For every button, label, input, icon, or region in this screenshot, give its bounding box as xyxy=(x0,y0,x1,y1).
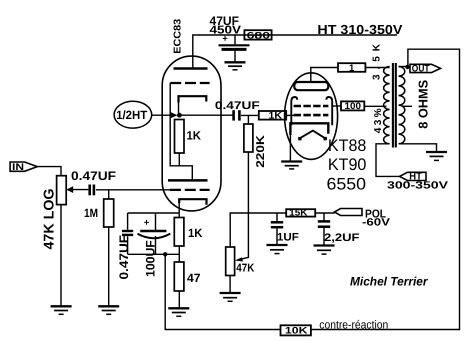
svg-text:1K: 1K xyxy=(187,128,202,142)
triode V1b plate xyxy=(168,179,208,182)
connector IN flag xyxy=(10,162,37,171)
svg-text:+: + xyxy=(144,218,150,229)
capacitor 47UF 450V leads xyxy=(234,35,236,61)
label ECC83 xyxy=(172,18,183,53)
label 43% xyxy=(373,108,384,133)
svg-text:47: 47 xyxy=(187,271,201,285)
wire cap to grid xyxy=(96,189,170,191)
potentiometer 47K bias xyxy=(226,247,235,276)
svg-text:220K: 220K xyxy=(255,134,267,168)
wire 1K bottom xyxy=(178,153,180,166)
wire 100 to tap xyxy=(364,105,386,107)
wire cathode bottom rail xyxy=(128,253,180,255)
wire 1M to ground xyxy=(108,227,110,306)
connector POL flag xyxy=(335,209,363,216)
wire cathode to ground xyxy=(289,133,291,161)
tube ECC83 envelope xyxy=(162,56,221,211)
KT88 plate xyxy=(294,82,328,90)
label 47UF 450V xyxy=(210,14,242,37)
triode V1a plate xyxy=(174,67,208,70)
potentiometer 47K LOG xyxy=(57,176,67,205)
label HT 310-350V xyxy=(317,22,402,37)
wire cathode top rail xyxy=(128,212,180,214)
label KT88 KT90 6550 xyxy=(327,136,367,194)
wire feedback right side xyxy=(311,49,460,329)
wire 1K to KT88 grid xyxy=(286,114,293,116)
node out junction xyxy=(405,65,409,69)
connector OUT flag xyxy=(410,64,441,72)
node feedback junction xyxy=(163,252,167,256)
resistor 15K xyxy=(286,209,315,216)
capacitor 0.47UF cathode xyxy=(127,213,129,254)
resistor 680 xyxy=(244,30,271,39)
wire pot wiper xyxy=(72,189,89,191)
ground 1M xyxy=(98,305,119,307)
svg-text:0.47UF: 0.47UF xyxy=(117,234,131,279)
svg-text:8 OHMS: 8 OHMS xyxy=(415,79,430,128)
svg-text:47K LOG: 47K LOG xyxy=(41,189,57,250)
svg-text:Michel Terrier: Michel Terrier xyxy=(350,274,429,288)
wire primary bottom to HT flag xyxy=(376,144,400,177)
transformer secondary coil xyxy=(399,67,405,144)
wire plate to resistor 1 xyxy=(311,68,338,83)
resistor 220K xyxy=(244,124,253,152)
svg-text:10K: 10K xyxy=(285,326,308,337)
svg-text:3.5K: 3.5K xyxy=(372,43,383,80)
wire 1 to primary xyxy=(365,67,389,69)
svg-text:300-350V: 300-350V xyxy=(387,181,448,192)
capacitor 0.47UF coupling xyxy=(232,110,235,120)
svg-text:0.47UF: 0.47UF xyxy=(215,100,260,112)
svg-text:1K: 1K xyxy=(269,110,283,121)
wire 15K to POL xyxy=(315,212,334,214)
wire V1b cathode lead xyxy=(178,201,180,218)
ground 1UF xyxy=(267,244,288,246)
svg-text:680: 680 xyxy=(247,30,271,41)
svg-text:OUT: OUT xyxy=(412,64,430,75)
svg-text:47K: 47K xyxy=(236,262,255,274)
resistor 1 xyxy=(338,63,365,72)
KT88 beam plate right xyxy=(326,97,332,125)
connector HT flag xyxy=(400,172,427,180)
connector 1/2HT xyxy=(114,101,152,128)
svg-text:6550: 6550 xyxy=(327,174,367,193)
resistor 100 xyxy=(341,101,364,110)
capacitor 1UF xyxy=(276,213,278,244)
KT88 screen grid g2 xyxy=(294,105,329,108)
label 0.47UF input xyxy=(71,169,116,183)
ground KT88 xyxy=(281,160,302,162)
label 8 OHMS xyxy=(415,79,430,128)
svg-text:-60V: -60V xyxy=(362,216,390,228)
svg-text:1UF: 1UF xyxy=(277,231,299,243)
wire g2 to 100 xyxy=(332,105,341,107)
KT88 control grid g1 xyxy=(294,114,329,117)
ground secondary xyxy=(426,151,447,153)
label 0.47UF cathode xyxy=(117,234,131,279)
ground 47 xyxy=(168,307,189,309)
wire 1M tap xyxy=(108,190,110,199)
svg-text:43%: 43% xyxy=(373,108,384,133)
transformer primary coil xyxy=(384,67,390,144)
resistor 1K SRPP xyxy=(175,120,185,154)
capacitor 0.47UF input plates xyxy=(88,185,91,196)
svg-text:IN: IN xyxy=(12,162,24,173)
capacitor 100UF xyxy=(155,213,157,254)
wire feedback from junction xyxy=(165,254,280,329)
triode V1a cathode xyxy=(179,96,207,102)
svg-text:HT 310-350V: HT 310-350V xyxy=(317,22,402,37)
resistor 47 xyxy=(174,262,184,291)
ground pot xyxy=(51,305,72,307)
wire SRPP output xyxy=(179,114,233,116)
ground 2.2UF xyxy=(314,244,335,246)
svg-text:15K: 15K xyxy=(289,208,308,218)
label + of 100UF xyxy=(144,218,150,229)
resistor 1M xyxy=(104,199,114,227)
svg-text:KT88: KT88 xyxy=(328,136,367,155)
svg-text:100UF: 100UF xyxy=(144,240,158,277)
wire 1/2HT arrow xyxy=(152,114,171,116)
wire HT rail top xyxy=(193,35,397,68)
capacitor 2.2UF xyxy=(323,213,325,245)
capacitor 47UF 450V plates xyxy=(219,44,250,46)
svg-text:1M: 1M xyxy=(84,206,98,220)
triode V1b grid xyxy=(170,189,210,191)
svg-text:1K: 1K xyxy=(188,226,203,240)
label contre-reaction xyxy=(319,318,388,331)
resistor 1K cathode xyxy=(174,218,184,247)
triode V1a grid xyxy=(170,82,209,84)
svg-text:ECC83: ECC83 xyxy=(172,18,183,53)
triode V1b cathode xyxy=(179,199,206,205)
svg-text:450V: 450V xyxy=(210,25,242,37)
wire 220K to wiper xyxy=(239,152,249,260)
svg-text:KT90: KT90 xyxy=(328,155,367,174)
svg-text:0.47UF: 0.47UF xyxy=(71,169,116,183)
wire V1a cathode lead xyxy=(178,102,180,116)
wire V1a grid to V1b plate xyxy=(170,83,192,179)
wire 220K tap xyxy=(247,115,249,124)
wire IN to pot xyxy=(37,167,61,176)
ground under 47UF xyxy=(225,61,246,63)
wire secondary top to out xyxy=(399,66,411,68)
ground 47K pot xyxy=(220,292,241,294)
svg-text:2,2UF: 2,2UF xyxy=(324,232,360,244)
wire pot bottom to ground xyxy=(60,205,62,306)
resistor 10K xyxy=(281,325,311,335)
wire secondary tap stub xyxy=(402,105,412,107)
label 300-350V xyxy=(387,181,448,192)
wire cap to 1K xyxy=(241,114,259,116)
transformer core xyxy=(392,63,394,148)
KT88 beam plate left xyxy=(291,97,297,125)
node cathode junction xyxy=(177,113,182,118)
label 3.5K xyxy=(372,43,383,80)
svg-text:1: 1 xyxy=(349,63,355,74)
wire pot bottom to ground xyxy=(229,276,231,293)
svg-text:100: 100 xyxy=(345,100,362,111)
wire 47 to ground xyxy=(178,291,180,308)
KT88 cathode xyxy=(290,123,328,135)
svg-text:1/2HT: 1/2HT xyxy=(116,108,148,122)
label Michel Terrier xyxy=(350,274,429,288)
wire secondary bottom to ground xyxy=(399,144,437,151)
label 100UF xyxy=(144,240,158,277)
label POL -60V xyxy=(362,209,390,229)
KT88 heater xyxy=(300,131,325,139)
resistor 1K grid stopper xyxy=(259,111,286,120)
wire bias rail xyxy=(230,213,286,247)
label + of 47UF xyxy=(222,34,228,45)
tube KT88 envelope xyxy=(285,73,338,160)
wire 1K to 47 xyxy=(178,246,180,262)
